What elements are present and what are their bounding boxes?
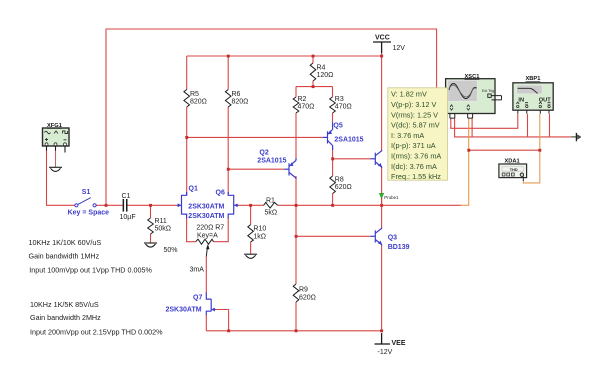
wire VCC bus y56 <box>187 55 382 57</box>
wire VCC stem lower <box>381 53 383 57</box>
svg-text:C1: C1 <box>122 193 131 200</box>
transistor Q2 emitter arrow <box>290 162 294 166</box>
node R4 top <box>312 55 315 58</box>
svg-text:Freq.: 1.55 kHz: Freq.: 1.55 kHz <box>391 172 441 181</box>
node R10 tap <box>249 204 252 207</box>
svg-text:R6: R6 <box>232 91 241 98</box>
transistor Q3 BD139 NPN <box>370 228 381 246</box>
svg-text:Q5: Q5 <box>333 122 342 129</box>
JFET Q1 gate arrow <box>177 204 181 206</box>
svg-text:XFG1: XFG1 <box>47 123 62 129</box>
annotation text block 2 <box>30 300 163 337</box>
resistor R9 620 body <box>293 284 299 302</box>
svg-text:I(rms): 3.76 mA: I(rms): 3.76 mA <box>391 152 441 161</box>
svg-text:V(rms): 1.25 V: V(rms): 1.25 V <box>391 110 438 119</box>
svg-text:VEE: VEE <box>392 340 406 347</box>
JFET Q7 2SK30ATM current source <box>206 293 211 316</box>
svg-text:5kΩ: 5kΩ <box>265 210 278 217</box>
JFET Q1 2SK30ATM <box>182 192 187 219</box>
svg-text:Q2: Q2 <box>259 150 268 157</box>
svg-text:V(p-p): 3.12 V: V(p-p): 3.12 V <box>391 100 437 109</box>
resistor R11 50k body <box>148 218 154 234</box>
svg-text:Q6: Q6 <box>216 190 225 197</box>
bode plotter XBP1 box <box>513 83 553 114</box>
wire R2 R3 top rail y86.6 <box>296 86 333 88</box>
wire C1 to Q1 gate <box>127 204 177 206</box>
probe Probe1 green arrow <box>379 193 384 198</box>
svg-text:Input 200mVpp out 2.15Vpp THD: Input 200mVpp out 2.15Vpp THD 0.002% <box>30 328 163 337</box>
svg-text:3mA: 3mA <box>190 267 205 274</box>
svg-text:820Ω: 820Ω <box>232 99 249 106</box>
JFET Q6 2SK30ATM <box>228 192 234 219</box>
svg-text:2SK30ATM: 2SK30ATM <box>188 213 224 220</box>
svg-text:R5: R5 <box>190 91 199 98</box>
transistor Q5 2SA1015 PNP <box>323 123 333 151</box>
ground below R11 <box>144 243 157 247</box>
svg-text:470Ω: 470Ω <box>335 104 352 111</box>
node S1-C1 junction <box>105 204 108 207</box>
wire R6 column x228.2 <box>227 56 229 90</box>
wire R8 leads <box>332 159 334 176</box>
wire R7 wiper to Q7 drain <box>205 257 207 294</box>
wire Q3 collector to rail <box>381 205 383 229</box>
node R11 tap <box>149 204 152 207</box>
instrument name labels <box>47 74 540 164</box>
wire scope B plus down to output rail (orange) <box>460 118 469 205</box>
svg-text:Key = Space: Key = Space <box>68 210 110 217</box>
svg-text:Key=A: Key=A <box>197 233 218 240</box>
svg-text:470Ω: 470Ω <box>298 104 315 111</box>
wire R4 leads <box>312 56 314 63</box>
wire XFG1 plus lead down <box>47 151 75 206</box>
resistor R10 1k body <box>248 225 254 242</box>
svg-text:2SA1015: 2SA1015 <box>257 158 286 165</box>
wire output rail y205.3 <box>278 204 462 206</box>
transistor Q4 NPN output <box>371 150 382 168</box>
potentiometer R7 wiper arrow <box>206 247 207 257</box>
node R6 top <box>227 55 230 58</box>
node probe output <box>380 204 383 207</box>
orange wires <box>460 114 540 205</box>
potentiometer R7 220 body horizontal <box>196 239 214 244</box>
svg-text:VCC: VCC <box>375 35 390 42</box>
svg-text:R4: R4 <box>317 65 326 72</box>
svg-text:Probe1: Probe1 <box>384 195 399 200</box>
capacitor C1 right plate <box>126 199 128 212</box>
wire bode OUT plus to XDA1 (orange) <box>523 114 540 183</box>
svg-text:I(p-p): 371 uA: I(p-p): 371 uA <box>391 141 436 150</box>
svg-text:THD: THD <box>510 168 518 172</box>
wire R3 leads <box>332 87 334 97</box>
svg-text:12V: 12V <box>393 45 406 52</box>
ground below R10 <box>244 254 257 258</box>
svg-text:Gain bandwidth 2MHz: Gain bandwidth 2MHz <box>30 313 101 322</box>
resistor R8 620 body <box>330 176 336 194</box>
svg-text:R8: R8 <box>335 177 344 184</box>
svg-text:Gain bandwidth 1MHz: Gain bandwidth 1MHz <box>29 252 100 261</box>
resistor R4 120 body <box>310 63 316 81</box>
svg-text:10KHz 1K/10K 60V/uS: 10KHz 1K/10K 60V/uS <box>29 238 102 247</box>
svg-text:Q7: Q7 <box>193 295 202 302</box>
svg-text:2SK30ATM: 2SK30ATM <box>188 203 224 210</box>
svg-text:620Ω: 620Ω <box>335 184 352 191</box>
svg-text:V: 1.82 mV: V: 1.82 mV <box>391 90 427 99</box>
resistor R5 820 body <box>184 90 190 108</box>
on-page connector arrow (output) <box>572 133 582 141</box>
potentiometer R7 wiper arrowhead <box>206 244 209 249</box>
node R9 bottom <box>295 329 298 332</box>
wire bottom rail <box>206 330 381 332</box>
svg-text:620Ω: 620Ω <box>299 295 316 302</box>
svg-text:2SK30ATM: 2SK30ATM <box>166 307 202 314</box>
node bridge left <box>467 149 470 152</box>
resistor bodies (black zigzags) <box>148 63 336 302</box>
wire Q7 gate loop <box>215 310 228 331</box>
svg-text:2SA1015: 2SA1015 <box>334 137 363 144</box>
node B R6 Q6 drain <box>227 168 230 171</box>
svg-text:XSC1: XSC1 <box>465 74 480 80</box>
svg-text:10µF: 10µF <box>120 214 136 221</box>
wire Q2 collector column x296 <box>295 176 297 236</box>
node VCC stem <box>380 55 383 58</box>
ground below XFG1 <box>49 151 62 172</box>
wire top bus input loop <box>106 29 437 205</box>
resistor R3 470 body <box>330 97 336 113</box>
wire bode IN minus to W2 <box>527 114 529 137</box>
transistor Q4 emitter arrow <box>378 163 382 167</box>
wire Q5 base from node A <box>187 136 323 138</box>
text labels black <box>120 35 406 357</box>
wire scope A plus to bode IN plus <box>451 114 518 128</box>
svg-text:Input 100mVpp out 1Vpp THD 0.0: Input 100mVpp out 1Vpp THD 0.005% <box>29 265 152 274</box>
node R1 right Q2 collector <box>295 204 298 207</box>
node Q5 collector R8 Q4 base <box>331 157 334 160</box>
svg-text:Q1: Q1 <box>189 186 198 193</box>
wire scope B minus to W2 <box>471 118 473 137</box>
svg-text:R2: R2 <box>298 96 307 103</box>
wire Q4 collector column <box>381 56 383 152</box>
svg-text:10KHz 1K/5K 85V/uS: 10KHz 1K/5K 85V/uS <box>30 300 99 309</box>
resistor R2 470 body <box>293 97 299 113</box>
svg-text:R3: R3 <box>335 96 344 103</box>
wire Q3 emitter down <box>381 244 383 331</box>
function generator XFG1 box <box>43 128 70 153</box>
svg-text:220Ω R7: 220Ω R7 <box>196 225 224 232</box>
svg-text:1kΩ: 1kΩ <box>253 234 266 241</box>
measurement tooltip box <box>388 88 448 181</box>
switch S1 <box>75 198 96 207</box>
capacitor C1 left plate <box>123 199 125 212</box>
svg-text:R10: R10 <box>253 226 266 233</box>
transistor Q2 2SA1015 PNP <box>284 158 296 179</box>
resistor R6 820 body <box>225 90 231 108</box>
wire Q2 base from node B <box>228 168 284 170</box>
wire bridge scope B plus to bode OUT plus <box>469 149 540 151</box>
svg-text:IN: IN <box>518 98 524 104</box>
resistor R1 5k body horizontal <box>264 203 278 209</box>
node R4 bottom <box>312 85 315 88</box>
svg-text:820Ω: 820Ω <box>190 99 207 106</box>
wire bode OUT minus to W2 <box>549 114 551 137</box>
JFET Q7 gate arrow <box>212 309 216 311</box>
svg-text:XBP1: XBP1 <box>526 76 541 82</box>
svg-text:I(dc): 3.76 mA: I(dc): 3.76 mA <box>391 162 437 171</box>
VEE power symbol <box>375 333 391 344</box>
svg-text:120Ω: 120Ω <box>317 72 334 79</box>
node A R5 Q1 drain <box>185 136 188 139</box>
node VEE rail corner <box>380 329 383 332</box>
svg-text:50kΩ: 50kΩ <box>155 226 172 233</box>
svg-text:R11: R11 <box>155 218 167 225</box>
wire R9 leads <box>295 236 297 284</box>
wire Q6 gate to R1 <box>237 204 263 206</box>
node bridge right <box>538 149 541 152</box>
annotation text block 1 <box>29 238 153 274</box>
node Q7 gate tie <box>227 329 230 332</box>
wire Q3 base <box>296 235 370 237</box>
wire R7 left lead <box>187 218 196 242</box>
wire R11 leads <box>150 205 152 218</box>
svg-text:V(dc): 5.87 mV: V(dc): 5.87 mV <box>391 121 440 130</box>
svg-text:-12V: -12V <box>378 349 393 356</box>
wire R7 right lead <box>214 218 229 242</box>
svg-text:R1: R1 <box>266 197 275 204</box>
svg-text:Q3: Q3 <box>388 235 397 242</box>
svg-text:R9: R9 <box>299 287 308 294</box>
wire Q5 collector to Q4 base <box>332 150 334 159</box>
distortion analyzer XDA1 box <box>499 164 527 181</box>
svg-text:I: 3.76 mA: I: 3.76 mA <box>391 131 424 140</box>
svg-text:50%: 50% <box>164 247 178 254</box>
svg-text:BD139: BD139 <box>388 244 410 251</box>
svg-text:Ext Trig: Ext Trig <box>482 89 494 93</box>
wires layer <box>47 29 572 331</box>
wire R10 lead <box>250 205 252 224</box>
blue component labels <box>68 122 410 313</box>
wire R5 column x186.7 <box>186 56 188 90</box>
VCC power symbol <box>373 42 391 53</box>
wire scope A minus to connector net W2 <box>455 118 572 137</box>
transistor Q3 emitter arrow <box>378 241 382 245</box>
oscilloscope XSC1 box <box>446 79 502 118</box>
transistor Q5 emitter arrow <box>328 130 332 134</box>
node Q3 base R9 <box>295 235 298 238</box>
svg-text:S1: S1 <box>82 189 91 196</box>
wire Q7 source to rail <box>205 315 207 331</box>
svg-text:XDA1: XDA1 <box>505 159 520 165</box>
node R8 bottom rail <box>331 204 334 207</box>
wire Q4 emitter to rail <box>381 166 383 205</box>
JFET Q6 gate arrow <box>234 204 238 206</box>
wire S1 to C1 <box>96 204 122 206</box>
wire R2 leads <box>295 87 297 97</box>
